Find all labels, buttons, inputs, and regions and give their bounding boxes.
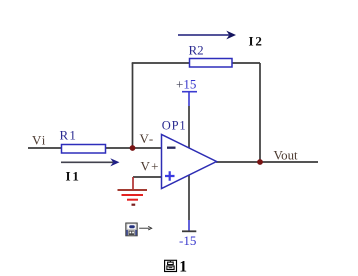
svg-text:-15: -15 [179,233,196,248]
svg-text:I2: I2 [249,33,264,48]
svg-text:Vi: Vi [32,132,47,147]
svg-text:Vout: Vout [274,148,299,162]
svg-text:1: 1 [179,258,187,275]
svg-text:V-: V- [140,131,155,146]
svg-text:+15: +15 [176,77,196,92]
svg-text:OP1: OP1 [162,119,187,133]
svg-text:V+: V+ [141,158,160,173]
svg-text:R2: R2 [189,42,204,57]
svg-text:R1: R1 [60,127,78,142]
svg-text:I1: I1 [66,168,81,183]
